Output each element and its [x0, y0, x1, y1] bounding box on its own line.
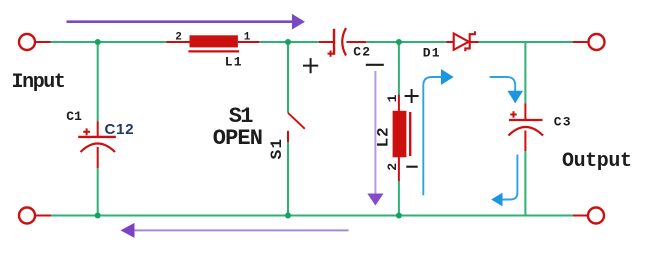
junction bottom S1: [285, 213, 291, 219]
arrow blue L2 current: [423, 69, 453, 195]
wire S1 branch lower: [287, 142, 289, 216]
svg-text:C12: C12: [105, 121, 135, 138]
svg-text:L2: L2: [375, 127, 393, 148]
svg-text:2: 2: [175, 32, 182, 44]
svg-text:L1: L1: [225, 54, 243, 69]
annotation minus near L2: [406, 166, 417, 168]
capacitor C3: [509, 104, 544, 152]
annotation plus near L2: [405, 89, 419, 103]
diode D1: [446, 31, 478, 51]
svg-text:C1: C1: [66, 109, 82, 124]
annotation minus near C2: [366, 64, 384, 66]
wire top green segment (C2 to D1): [366, 41, 446, 43]
wire L2 branch upper: [398, 41, 400, 95]
wire top left green segment: [51, 41, 167, 43]
terminal output top: [573, 34, 605, 50]
annotation plus near C2: [303, 58, 318, 73]
wire C1 branch upper: [97, 41, 99, 121]
svg-text:C2: C2: [353, 44, 371, 59]
wire C3 branch upper: [524, 41, 526, 104]
arrow purple top (input current): [67, 14, 306, 30]
svg-text:Output: Output: [562, 150, 632, 173]
inductor L2: [393, 95, 411, 182]
svg-text:OPEN: OPEN: [213, 126, 262, 151]
arrow blue out of C3: [491, 155, 517, 207]
junction top S1: [285, 39, 291, 45]
svg-text:1: 1: [385, 94, 400, 102]
svg-text:2: 2: [385, 163, 400, 171]
junction top C1: [95, 39, 101, 45]
svg-text:C3: C3: [554, 115, 572, 130]
terminal input bottom: [19, 208, 51, 224]
arrow purple down (C2 discharge): [367, 71, 383, 206]
svg-text:S1: S1: [268, 138, 286, 160]
switch S1: [288, 113, 305, 143]
junction bottom L2: [396, 213, 402, 219]
svg-text:1: 1: [244, 32, 251, 44]
capacitor C2: [319, 28, 366, 57]
arrow purple bottom (return current): [121, 223, 349, 238]
wire S1 branch upper: [287, 41, 289, 113]
junction bottom C1: [95, 213, 101, 219]
terminal input top: [19, 34, 51, 50]
arrow blue into C3: [490, 77, 523, 103]
wire top right green segment (D1 to terminal): [479, 41, 574, 43]
wire bottom green rail: [51, 215, 573, 217]
terminal output bottom: [573, 208, 604, 224]
svg-text:Input: Input: [12, 71, 65, 94]
wire L2 branch lower: [398, 181, 400, 217]
capacitor C1: [78, 121, 116, 168]
wire C3 branch lower: [524, 151, 526, 217]
wire top middle green segment (L1 to C2): [259, 41, 319, 43]
inductor L1: [166, 35, 259, 51]
junction top L2: [396, 39, 402, 45]
wire C1 branch lower: [97, 168, 99, 216]
svg-text:D1: D1: [423, 45, 441, 60]
